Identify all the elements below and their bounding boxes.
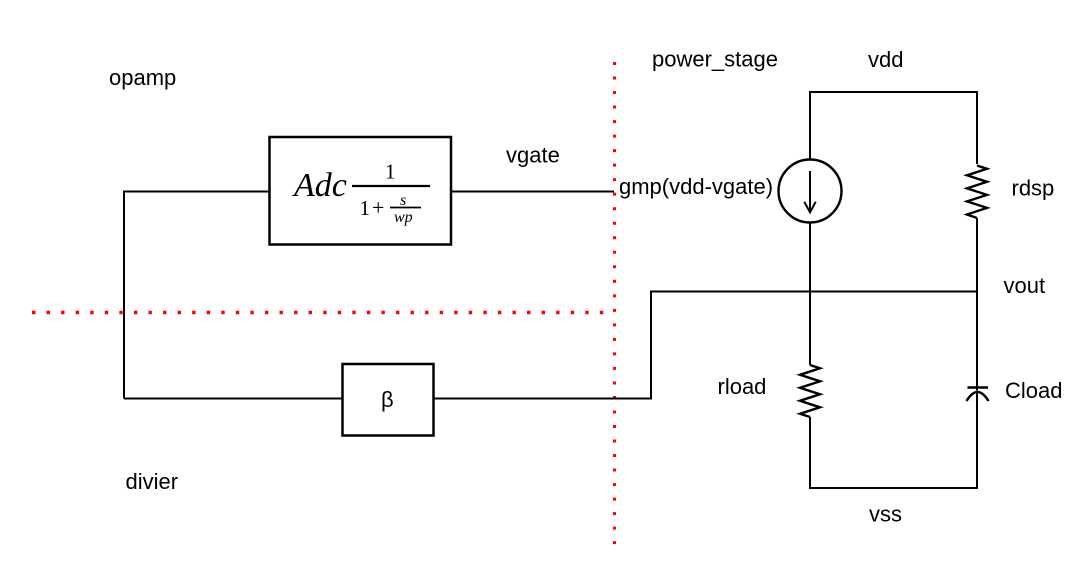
resistor rload (800, 365, 820, 417)
main fraction bar (352, 185, 430, 187)
svg-text:β: β (381, 387, 394, 412)
boundary: horizontal red dotted divider (32, 311, 604, 314)
svg-text:gmp(vdd-vgate): gmp(vdd-vgate) (619, 174, 773, 199)
svg-text:+: + (372, 195, 384, 220)
nested fraction bar (390, 207, 421, 209)
current source G1 circle (779, 160, 842, 223)
wire: current source to vout node (809, 222, 811, 292)
wire: rdsp to vout node (976, 218, 978, 292)
feedback block beta (343, 364, 434, 436)
wire: vout down to rload (809, 292, 811, 366)
svg-text:Adc: Adc (292, 167, 347, 204)
current source arrow (804, 171, 815, 212)
wire: beta block to vout node (434, 292, 651, 399)
capacitor Cload bottom plate (curved) (967, 392, 989, 401)
wire: vdd top rail (809, 91, 977, 93)
svg-text:rdsp: rdsp (1012, 176, 1055, 201)
op-amp transfer-function block (Adc/(1+s/wp)) (270, 137, 452, 245)
wire: vss bottom rail (809, 487, 978, 489)
svg-text:wp: wp (394, 209, 413, 226)
svg-text:vss: vss (869, 502, 902, 527)
wire: feedback to beta block (124, 398, 342, 400)
svg-text:Cload: Cload (1005, 378, 1062, 403)
wire: vdd rail down to rdsp (976, 91, 978, 164)
wire: opamp output (vgate) (452, 191, 614, 193)
wire: Cload to vss rail (976, 393, 978, 490)
wire: vout down to Cload (976, 292, 978, 391)
wire: vdd rail down to current source (809, 91, 811, 160)
svg-text:vgate: vgate (506, 143, 560, 168)
wire: vout net (650, 291, 978, 293)
resistor rdsp (967, 166, 987, 219)
capacitor Cload top plate (968, 386, 989, 389)
wire: rload to vss rail (809, 417, 811, 489)
svg-text:power_stage: power_stage (652, 47, 778, 72)
svg-text:vdd: vdd (868, 47, 903, 72)
svg-text:rload: rload (718, 374, 767, 399)
wire: input to opamp block (124, 192, 269, 399)
svg-text:s: s (400, 192, 406, 209)
svg-text:1: 1 (360, 196, 371, 220)
boundary: vertical red dotted divider (613, 62, 616, 545)
svg-text:1: 1 (385, 160, 396, 184)
svg-text:divier: divier (126, 469, 179, 494)
svg-text:vout: vout (1004, 273, 1046, 298)
svg-text:opamp: opamp (109, 65, 176, 90)
